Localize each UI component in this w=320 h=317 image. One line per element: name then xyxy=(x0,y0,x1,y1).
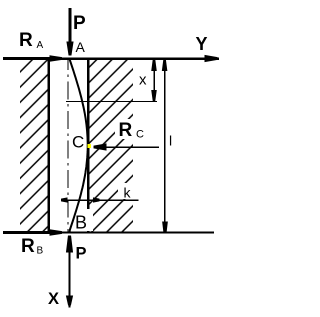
svg-text:R: R xyxy=(119,120,133,141)
svg-text:C: C xyxy=(72,132,84,151)
svg-text:X: X xyxy=(48,290,59,308)
svg-text:k: k xyxy=(124,184,132,200)
svg-text:C: C xyxy=(136,129,144,141)
svg-text:R: R xyxy=(21,236,35,257)
svg-text:l: l xyxy=(169,133,172,149)
svg-text:R: R xyxy=(19,30,33,51)
svg-text:Y: Y xyxy=(196,34,208,54)
svg-text:A: A xyxy=(37,40,44,51)
svg-text:x: x xyxy=(139,72,147,89)
svg-text:P: P xyxy=(73,13,86,34)
svg-text:A: A xyxy=(76,39,86,55)
svg-text:B: B xyxy=(75,213,87,233)
svg-text:P: P xyxy=(76,244,87,262)
svg-text:B: B xyxy=(37,246,44,257)
